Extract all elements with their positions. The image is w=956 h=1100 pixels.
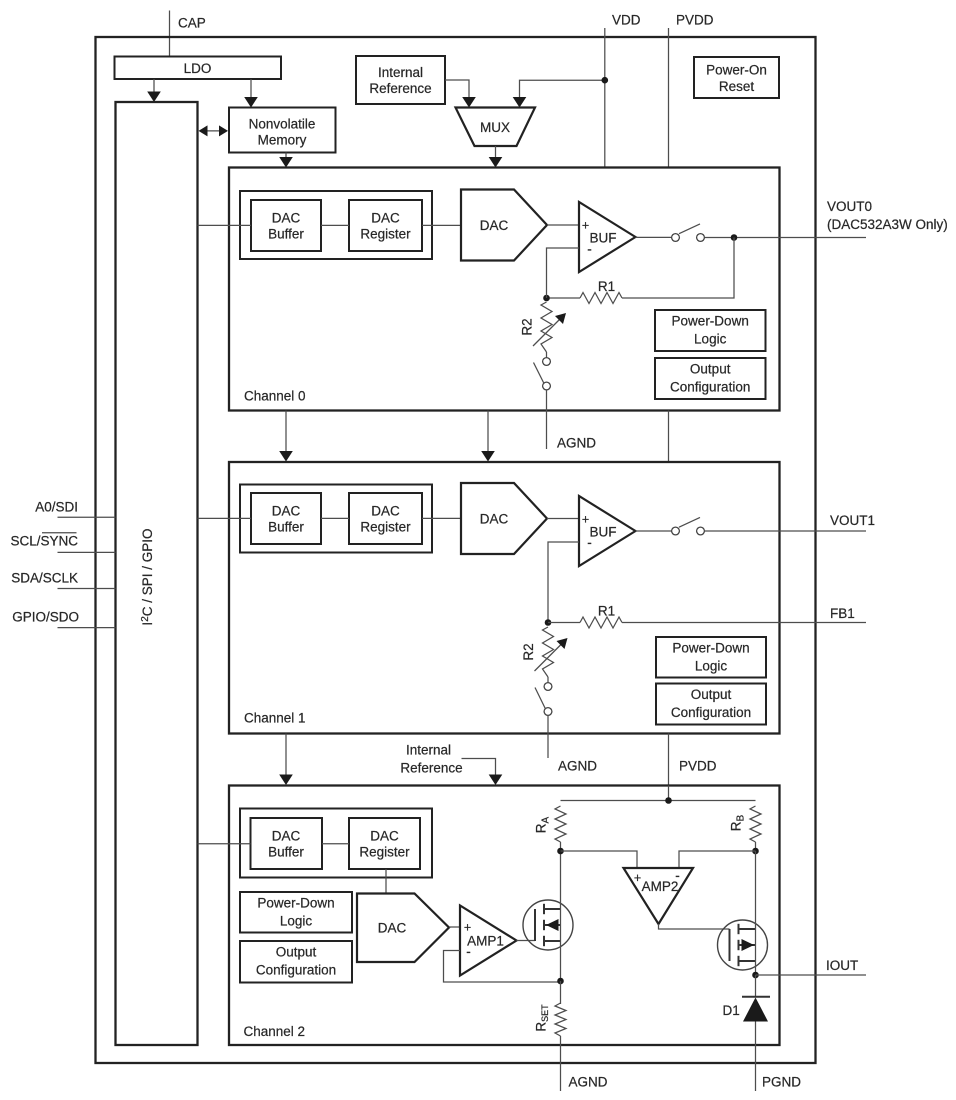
svg-text:VOUT1: VOUT1 (830, 513, 875, 528)
svg-text:D1: D1 (723, 1003, 740, 1018)
svg-text:Register: Register (360, 520, 411, 535)
svg-text:R1: R1 (598, 604, 615, 619)
svg-text:Register: Register (359, 845, 410, 860)
svg-text:SCL/SYNC: SCL/SYNC (10, 534, 78, 549)
svg-text:DAC: DAC (272, 211, 301, 226)
svg-text:Buffer: Buffer (268, 845, 304, 860)
svg-text:Power-Down: Power-Down (672, 314, 749, 329)
svg-text:Internal: Internal (406, 743, 451, 758)
svg-text:SDA/SCLK: SDA/SCLK (11, 571, 78, 586)
svg-text:-: - (587, 535, 592, 550)
svg-text:DAC: DAC (480, 512, 509, 527)
svg-text:Buffer: Buffer (268, 520, 304, 535)
svg-text:PGND: PGND (762, 1075, 801, 1090)
svg-text:Channel 2: Channel 2 (244, 1024, 306, 1039)
svg-text:Output: Output (690, 362, 731, 377)
svg-text:A0/SDI: A0/SDI (35, 500, 78, 515)
svg-text:Power-Down: Power-Down (257, 896, 334, 911)
svg-text:+: + (464, 921, 471, 935)
svg-text:(DAC532A3W Only): (DAC532A3W Only) (827, 217, 948, 232)
svg-text:Memory: Memory (258, 133, 307, 148)
svg-text:Configuration: Configuration (671, 705, 751, 720)
svg-text:AGND: AGND (557, 436, 596, 451)
svg-text:IOUT: IOUT (826, 958, 858, 973)
svg-text:I2C / SPI / GPIO: I2C / SPI / GPIO (140, 528, 155, 625)
svg-text:VDD: VDD (612, 13, 641, 28)
svg-text:-: - (466, 944, 471, 959)
svg-text:Reference: Reference (400, 761, 462, 776)
svg-text:MUX: MUX (480, 120, 510, 135)
svg-text:DAC: DAC (480, 218, 509, 233)
svg-text:Output: Output (276, 945, 317, 960)
svg-text:Reset: Reset (719, 79, 755, 94)
svg-text:Reference: Reference (369, 81, 431, 96)
svg-text:+: + (582, 219, 589, 233)
svg-text:FB1: FB1 (830, 606, 855, 621)
svg-text:AMP1: AMP1 (467, 934, 504, 949)
svg-text:BUF: BUF (590, 525, 617, 540)
svg-text:Register: Register (360, 227, 411, 242)
svg-text:Nonvolatile: Nonvolatile (249, 117, 316, 132)
svg-text:Buffer: Buffer (268, 227, 304, 242)
svg-text:Logic: Logic (694, 332, 727, 347)
svg-text:DAC: DAC (272, 504, 301, 519)
svg-text:+: + (634, 871, 641, 885)
svg-text:Logic: Logic (280, 914, 313, 929)
svg-text:AGND: AGND (558, 759, 597, 774)
svg-text:CAP: CAP (178, 16, 206, 31)
svg-text:R2: R2 (521, 643, 536, 660)
svg-text:Output: Output (691, 687, 732, 702)
svg-text:-: - (587, 242, 592, 257)
svg-text:PVDD: PVDD (676, 13, 714, 28)
svg-text:Power-On: Power-On (706, 63, 767, 78)
svg-text:+: + (582, 513, 589, 527)
svg-text:VOUT0: VOUT0 (827, 199, 872, 214)
svg-text:R2: R2 (520, 318, 535, 335)
svg-text:DAC: DAC (371, 504, 400, 519)
svg-text:Channel 0: Channel 0 (244, 389, 306, 404)
svg-text:Configuration: Configuration (256, 963, 336, 978)
svg-text:LDO: LDO (184, 61, 212, 76)
svg-text:BUF: BUF (590, 231, 617, 246)
svg-text:AMP2: AMP2 (642, 879, 679, 894)
svg-text:Logic: Logic (695, 659, 728, 674)
svg-text:R1: R1 (598, 279, 615, 294)
svg-text:DAC: DAC (370, 829, 399, 844)
svg-text:DAC: DAC (272, 829, 301, 844)
svg-text:AGND: AGND (569, 1075, 608, 1090)
svg-text:Configuration: Configuration (670, 380, 750, 395)
svg-text:Channel 1: Channel 1 (244, 711, 306, 726)
svg-text:DAC: DAC (378, 921, 407, 936)
svg-text:DAC: DAC (371, 211, 400, 226)
svg-text:PVDD: PVDD (679, 759, 717, 774)
svg-text:Power-Down: Power-Down (672, 641, 749, 656)
svg-text:GPIO/SDO: GPIO/SDO (12, 610, 79, 625)
svg-text:Internal: Internal (378, 65, 423, 80)
svg-text:-: - (675, 868, 680, 883)
